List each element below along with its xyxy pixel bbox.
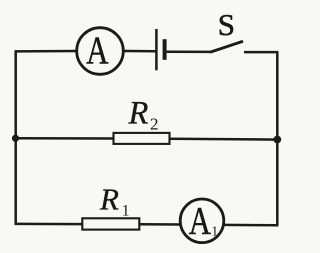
wire: middle right (R2 to junction) — [169, 138, 278, 141]
svg-text:A: A — [86, 27, 109, 72]
wire: right vertical — [276, 52, 279, 226]
battery B1 long plate — [155, 29, 158, 70]
wire: ammeter A to battery — [123, 50, 155, 53]
svg-text:2: 2 — [150, 114, 159, 133]
ammeter U1 label A — [86, 27, 109, 72]
wire: ammeter A1 to bottom-right corner — [223, 224, 279, 227]
svg-text:R: R — [99, 181, 119, 216]
svg-text:S: S — [218, 7, 235, 42]
resistor R2 box — [114, 133, 170, 144]
wire: R1 to ammeter A1 — [139, 223, 182, 226]
wire: battery to switch pivot — [167, 51, 211, 54]
svg-text:1: 1 — [211, 224, 218, 239]
node left junction dot — [12, 135, 19, 142]
svg-text:A: A — [189, 199, 211, 242]
battery B1 short thick plate — [163, 39, 167, 60]
wire: top from left corner to ammeter A — [15, 50, 77, 53]
switch S lever — [210, 41, 243, 52]
ammeter U2 label A — [189, 199, 211, 242]
wire: switch contact to top-right corner — [244, 51, 278, 54]
svg-text:1: 1 — [122, 203, 130, 220]
wire: left vertical — [14, 51, 17, 225]
svg-text:R: R — [128, 95, 149, 131]
resistor R1 box — [82, 218, 139, 229]
wire: bottom left corner to R1 — [15, 223, 83, 226]
ammeter U1 "A" circle — [77, 28, 124, 75]
wire: middle left (junction to R2) — [15, 137, 114, 140]
node right junction dot — [273, 136, 281, 144]
ammeter U2 "A1" circle — [180, 199, 224, 243]
